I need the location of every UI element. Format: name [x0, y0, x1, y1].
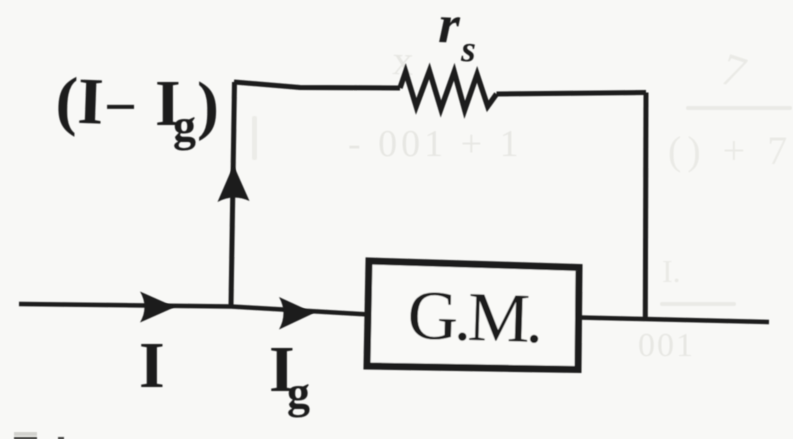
ghost bleed-through text (mirrored from page reverse): [252, 38, 793, 364]
arrowhead current I on bottom wire: [140, 292, 175, 323]
wire top-left segment: [234, 82, 400, 88]
arrowhead upward on left branch: [218, 165, 250, 202]
ghost streak right: [686, 106, 792, 110]
svg-text:r: r: [438, 0, 462, 55]
resistor rs zigzag: [400, 71, 497, 110]
wire top-right segment: [497, 93, 647, 95]
svg-text:I: I: [139, 329, 165, 402]
wire bottom-left segment carrying I: [19, 304, 369, 315]
ghost vertical mark near left branch: [252, 116, 257, 160]
cropped caption marks bottom-left: [14, 432, 64, 439]
arrowhead current Ig on bottom wire: [279, 297, 314, 330]
svg-text:G.M.: G.M.: [406, 277, 540, 358]
svg-text:001: 001: [638, 327, 695, 364]
svg-text:(I: (I: [54, 64, 104, 139]
galvanometer box G.M.: [367, 261, 579, 370]
svg-text:g: g: [173, 100, 196, 151]
wire bottom-right segment: [579, 318, 769, 323]
wire left branch vertical: [231, 82, 235, 306]
svg-text:() + 7: () + 7: [668, 128, 793, 173]
svg-text:- 001 + 1: - 001 + 1: [348, 123, 523, 165]
wire right branch vertical: [643, 93, 649, 320]
svg-text:): ): [197, 69, 219, 142]
svg-text:I.: I.: [662, 253, 681, 289]
svg-text:−: −: [104, 74, 137, 139]
svg-text:g: g: [287, 367, 310, 418]
svg-text:s: s: [460, 29, 477, 71]
